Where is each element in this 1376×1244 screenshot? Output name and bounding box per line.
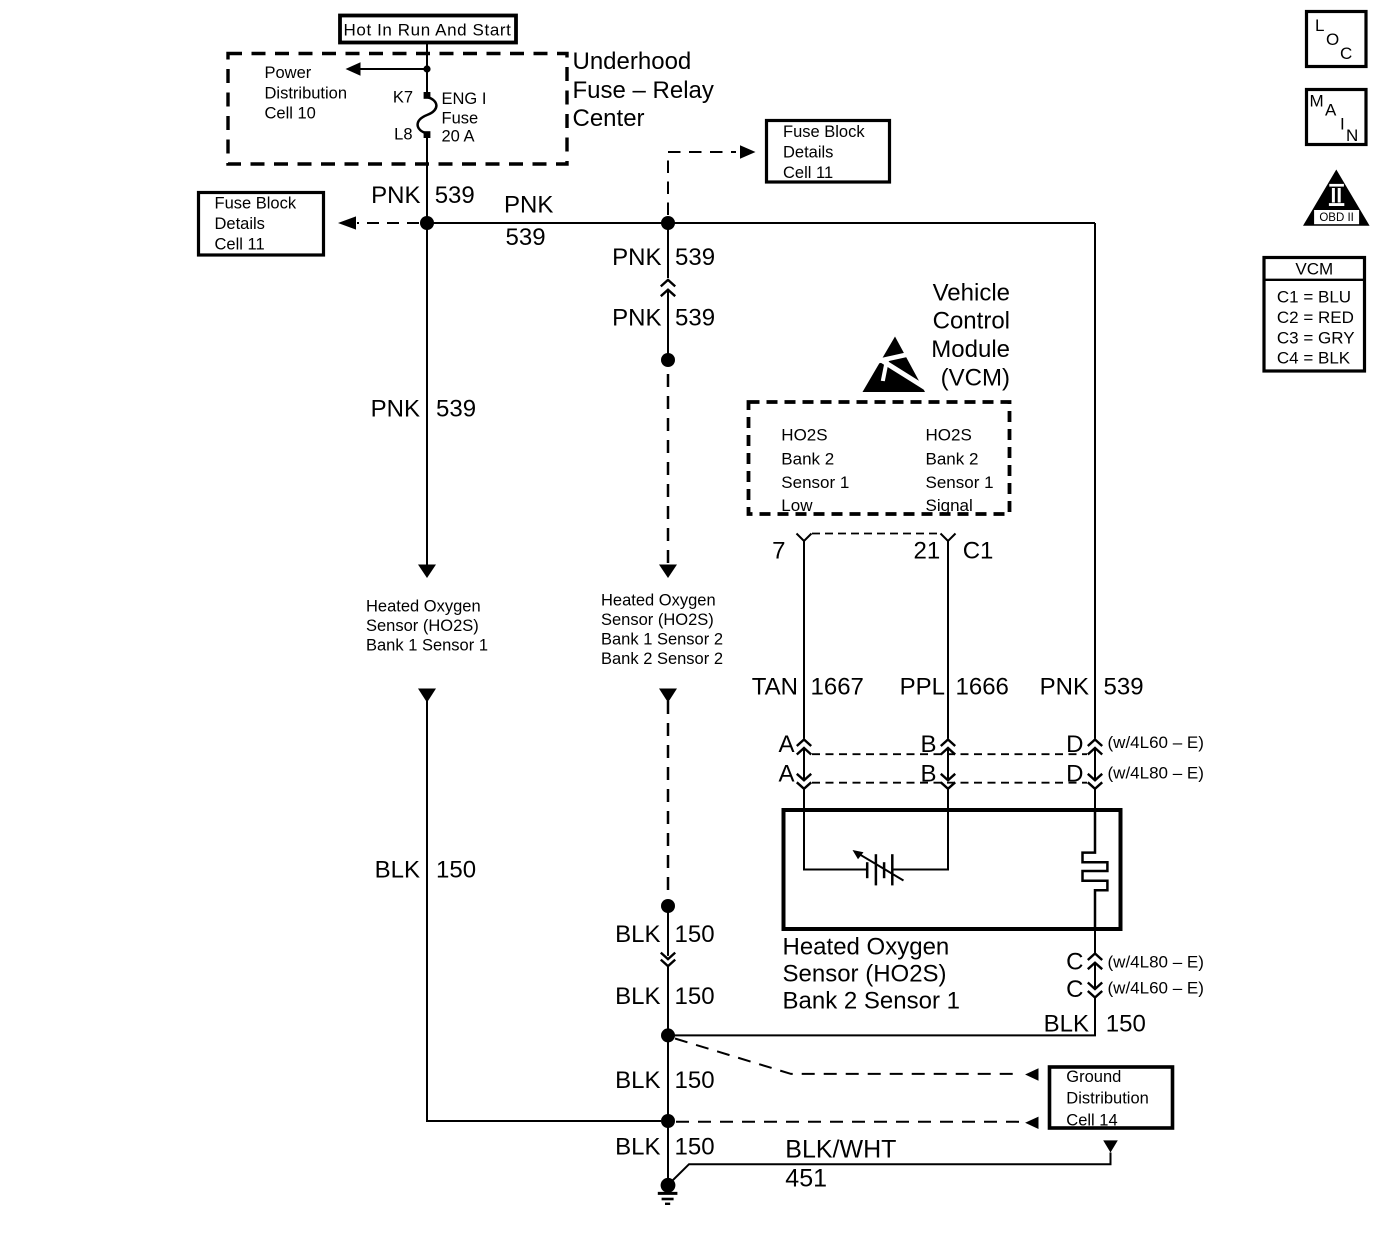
svg-text:Heated Oxygen: Heated Oxygen bbox=[783, 934, 950, 961]
svg-text:539: 539 bbox=[436, 396, 476, 423]
dashed wire: BLK 150 middle down bbox=[667, 701, 670, 899]
arrowhead: down to Heated Oxygen Sensor (middle) bbox=[659, 565, 677, 579]
Underhood Fuse-Relay Center dashed box bbox=[228, 54, 567, 165]
svg-text:BLK: BLK bbox=[615, 983, 660, 1010]
svg-text:PNK: PNK bbox=[371, 182, 420, 209]
junction: middle wire dot at dashed restart bbox=[661, 899, 675, 913]
svg-text:A: A bbox=[1325, 101, 1337, 120]
svg-text:Sensor (HO2S): Sensor (HO2S) bbox=[366, 617, 479, 635]
wire: connector to splice dot bbox=[667, 290, 669, 360]
fuse ENG I 20A: S-curve element bbox=[418, 97, 437, 134]
svg-text:Center: Center bbox=[573, 105, 645, 132]
ground symbol bars bbox=[658, 1193, 678, 1203]
svg-text:C2 = RED: C2 = RED bbox=[1277, 308, 1354, 327]
svg-text:HO2S: HO2S bbox=[926, 426, 972, 445]
inline connector row 2 (w/4L80-E) wire B bbox=[941, 774, 955, 789]
svg-text:539: 539 bbox=[675, 304, 715, 331]
wire: connector to splice bbox=[667, 966, 669, 1035]
box: Ground Distribution Cell 14 bbox=[1050, 1067, 1173, 1129]
label: PNK 539 (left column) bbox=[371, 396, 476, 423]
svg-text:150: 150 bbox=[675, 1134, 715, 1161]
VCM dashed box bbox=[749, 402, 1010, 514]
svg-text:Sensor (HO2S): Sensor (HO2S) bbox=[783, 961, 947, 988]
text: pin numbers 7, 21, C1 bbox=[772, 538, 993, 565]
wire: splice down to ground bbox=[667, 1121, 669, 1185]
wires from row2 connectors into HO2S box bbox=[803, 789, 805, 810]
svg-text:BLK: BLK bbox=[375, 857, 420, 884]
label: PPL 1666 bbox=[900, 673, 1009, 700]
svg-text:PNK: PNK bbox=[371, 396, 420, 423]
svg-text:O: O bbox=[1326, 30, 1339, 49]
svg-text:539: 539 bbox=[1104, 673, 1144, 700]
heater element symbol bbox=[1083, 810, 1108, 929]
arrowhead: down to Heated Oxygen Sensor (left) bbox=[418, 565, 436, 579]
label: PNK 539 (above inline connector) bbox=[612, 244, 715, 271]
inline connector row 1 (w/4L60-E) wire D bbox=[1088, 740, 1102, 755]
svg-text:150: 150 bbox=[436, 857, 476, 884]
box: Fuse Block Details Cell 11 (left) bbox=[199, 193, 324, 256]
pin 7: connector Y symbol bbox=[797, 534, 812, 542]
pin 21: connector Y symbol bbox=[941, 534, 956, 542]
arrowhead: into Fuse Block Details left bbox=[338, 216, 356, 229]
svg-text:Bank 2 Sensor 1: Bank 2 Sensor 1 bbox=[783, 988, 960, 1015]
svg-text:Ground: Ground bbox=[1066, 1068, 1121, 1086]
label: PNK 539 (upper left wire) bbox=[371, 182, 475, 209]
wire: from Hot In Run And Start down into fuse bbox=[426, 42, 428, 95]
svg-text:Fuse Block: Fuse Block bbox=[783, 123, 865, 141]
wire PNK 539 right side corner down bbox=[1094, 223, 1096, 739]
ESD sensitive symbol bbox=[863, 337, 931, 393]
svg-text:BLK: BLK bbox=[1044, 1011, 1089, 1038]
label: BLK 150 (third) bbox=[615, 1067, 714, 1094]
inline connector row 1 (w/4L60-E) wire A bbox=[797, 740, 811, 755]
inline connector on middle BLK wire bbox=[661, 953, 675, 967]
svg-text:BLK: BLK bbox=[615, 1067, 660, 1094]
junction: splice node left bbox=[420, 216, 434, 230]
svg-text:C: C bbox=[1066, 948, 1083, 975]
text: fuse labels K7 L8 ENG I Fuse 20 A bbox=[393, 89, 487, 146]
inline connector on middle wire (chevron pair) bbox=[661, 280, 675, 296]
wire: HO2S ground lead below box bbox=[1094, 929, 1096, 953]
svg-text:C: C bbox=[1066, 976, 1083, 1003]
box: Heated Oxygen Sensor HO2S Bank 2 Sensor 1 bbox=[784, 810, 1121, 929]
text: connector C labels bbox=[1066, 948, 1204, 1003]
svg-text:1667: 1667 bbox=[811, 673, 864, 700]
svg-text:BLK: BLK bbox=[615, 1134, 660, 1161]
wire PPL 1666 from pin 21 bbox=[947, 541, 949, 739]
svg-text:Details: Details bbox=[783, 144, 833, 162]
text: Vehicle Control Module (VCM) bbox=[931, 279, 1010, 391]
svg-text:Details: Details bbox=[215, 215, 265, 233]
VCM connector color legend table bbox=[1264, 258, 1365, 372]
sensor element: lead wires inside box bbox=[804, 810, 867, 870]
inline connector row 2 (w/4L80-E) wire D bbox=[1088, 774, 1102, 789]
svg-text:Low: Low bbox=[781, 496, 813, 515]
svg-text:B: B bbox=[920, 731, 936, 758]
svg-text:K7: K7 bbox=[393, 89, 413, 107]
svg-text:N: N bbox=[1346, 126, 1358, 145]
arrowhead: into Power Distribution Cell 10 bbox=[346, 62, 361, 76]
wire PNK 539: fuse output down to splice bbox=[426, 138, 428, 223]
svg-text:VCM: VCM bbox=[1295, 259, 1333, 278]
label: TAN 1667 bbox=[752, 673, 864, 700]
svg-text:Fuse: Fuse bbox=[442, 109, 479, 127]
dashed wire: diagonal to Ground Distribution row 1 bbox=[675, 1039, 1021, 1074]
svg-text:A: A bbox=[778, 761, 794, 788]
svg-text:150: 150 bbox=[1106, 1011, 1146, 1038]
arrowhead: Ground Distribution row 1 bbox=[1025, 1068, 1038, 1080]
svg-text:M: M bbox=[1310, 92, 1324, 111]
dashed wire to Fuse Block Details (left) bbox=[357, 222, 419, 224]
inline connector C row (w/4L80-E) bbox=[1088, 954, 1102, 970]
svg-text:Heated Oxygen: Heated Oxygen bbox=[366, 598, 481, 616]
svg-text:7: 7 bbox=[772, 538, 785, 565]
label: PNK 539 (below inline connector) bbox=[612, 304, 715, 331]
connector shaft C rows bbox=[1094, 963, 1096, 989]
svg-text:Sensor (HO2S): Sensor (HO2S) bbox=[601, 611, 714, 629]
svg-text:BLK: BLK bbox=[615, 921, 660, 948]
svg-text:Module: Module bbox=[931, 336, 1010, 363]
text: connector pin letters row 2 bbox=[778, 761, 1203, 788]
svg-text:(w/4L80 – E): (w/4L80 – E) bbox=[1108, 953, 1204, 972]
main horizontal wire PNK 539 across top bbox=[427, 222, 1095, 224]
svg-text:L: L bbox=[1315, 16, 1324, 35]
svg-text:Sensor 1: Sensor 1 bbox=[926, 473, 994, 492]
wire: middle segment to inline connector bbox=[667, 906, 669, 956]
junction: splice node on middle wire bbox=[661, 353, 675, 367]
svg-text:Heated Oxygen: Heated Oxygen bbox=[601, 592, 716, 610]
svg-text:BLK/WHT: BLK/WHT bbox=[785, 1136, 896, 1164]
svg-text:(w/4L80 – E): (w/4L80 – E) bbox=[1108, 763, 1204, 782]
svg-text:451: 451 bbox=[785, 1164, 827, 1192]
dashed connector face row 2 bbox=[812, 782, 1087, 784]
svg-text:L8: L8 bbox=[394, 125, 412, 143]
label: BLK 150 (right column) bbox=[1044, 1011, 1146, 1038]
svg-text:Cell 11: Cell 11 bbox=[215, 235, 265, 253]
node: splice at top of fuse bbox=[423, 65, 430, 72]
sensor element: variable arrow bbox=[853, 850, 904, 881]
svg-text:539: 539 bbox=[675, 244, 715, 271]
inline connector row 1 (w/4L60-E) wire B bbox=[941, 740, 955, 755]
svg-text:PNK: PNK bbox=[612, 304, 661, 331]
svg-text:TAN: TAN bbox=[752, 673, 798, 700]
inline connector C row (w/4L60-E) bbox=[1088, 983, 1102, 998]
svg-text:Cell 11: Cell 11 bbox=[783, 164, 833, 182]
svg-text:C1: C1 bbox=[963, 538, 994, 565]
svg-text:(w/4L60 – E): (w/4L60 – E) bbox=[1108, 979, 1204, 998]
wire: middle PNK 539 segment down to connector bbox=[667, 223, 669, 278]
svg-text:C4 = BLK: C4 = BLK bbox=[1277, 349, 1351, 368]
fuse ENG I 20A: terminal L8 bbox=[424, 131, 431, 138]
arrowhead: from Ground Distribution (down triangle) bbox=[1103, 1140, 1118, 1152]
text: Underhood Fuse - Relay Center bbox=[573, 48, 714, 132]
svg-text:I: I bbox=[1340, 115, 1345, 134]
svg-text:PNK: PNK bbox=[1040, 673, 1089, 700]
arrowhead: from HO2S sensors (wire restart middle) bbox=[659, 689, 677, 703]
junction: splice node middle bbox=[661, 216, 675, 230]
label: BLK 150 (fourth) bbox=[615, 1134, 714, 1161]
svg-text:Fuse – Relay: Fuse – Relay bbox=[573, 77, 714, 104]
svg-text:(w/4L60 – E): (w/4L60 – E) bbox=[1108, 733, 1204, 752]
OBD II triangle symbol bbox=[1303, 170, 1370, 226]
junction: splice with right branch bbox=[661, 1028, 675, 1042]
svg-text:Underhood: Underhood bbox=[573, 48, 692, 75]
wire: left column PNK 539 down bbox=[426, 223, 428, 565]
text: HO2S Bank 2 Sensor 1 Signal bbox=[926, 426, 994, 515]
wire: BLK/WHT 451 from ground node to Ground Distribution bbox=[670, 1153, 1111, 1184]
LOC legend box bbox=[1307, 12, 1367, 67]
svg-text:Distribution: Distribution bbox=[265, 84, 348, 102]
label: BLK 150 (below middle connector) bbox=[615, 983, 714, 1010]
svg-text:C3 = GRY: C3 = GRY bbox=[1277, 328, 1355, 347]
svg-text:Hot In Run And Start: Hot In Run And Start bbox=[344, 20, 512, 39]
svg-text:Bank 2 Sensor 2: Bank 2 Sensor 2 bbox=[601, 650, 723, 668]
wire: splice down to next splice bbox=[667, 1035, 669, 1121]
dashed branch up to Fuse Block Details (right) bbox=[668, 152, 736, 215]
svg-text:Bank 1 Sensor 2: Bank 1 Sensor 2 bbox=[601, 631, 723, 649]
arrowhead: Ground Distribution row 2 bbox=[1025, 1117, 1038, 1129]
svg-text:20 A: 20 A bbox=[442, 127, 475, 145]
svg-text:Control: Control bbox=[933, 308, 1010, 335]
svg-text:Vehicle: Vehicle bbox=[933, 279, 1010, 306]
text: Heated Oxygen Sensor (HO2S) Bank 1 Sensor 2 Bank 2 Sensor 2 bbox=[601, 592, 723, 669]
svg-text:150: 150 bbox=[675, 921, 715, 948]
svg-text:PPL: PPL bbox=[900, 673, 945, 700]
svg-text:Cell 14: Cell 14 bbox=[1066, 1111, 1117, 1129]
svg-text:Cell 10: Cell 10 bbox=[265, 105, 316, 123]
svg-text:Bank 2: Bank 2 bbox=[781, 450, 834, 469]
svg-text:Power: Power bbox=[265, 64, 312, 82]
svg-text:C1 = BLU: C1 = BLU bbox=[1277, 287, 1351, 306]
svg-text:OBD II: OBD II bbox=[1319, 212, 1354, 224]
connector C1 dashed face line bbox=[812, 533, 940, 535]
wire: branch to Power Distribution bbox=[359, 68, 427, 70]
box: Fuse Block Details Cell 11 (right) bbox=[767, 121, 890, 183]
text: Heated Oxygen Sensor (HO2S) Bank 1 Sensor 1 bbox=[366, 598, 488, 655]
ground node dot bbox=[661, 1178, 676, 1193]
svg-text:PNK: PNK bbox=[504, 191, 553, 218]
sensor element: plates bbox=[867, 854, 892, 885]
text: HO2S Bank 2 Sensor 1 Low bbox=[781, 426, 849, 515]
text: connector pin letters row 1 bbox=[778, 731, 1203, 758]
junction: splice with left branch bbox=[661, 1114, 675, 1128]
label: BLK/WHT 451 bbox=[785, 1136, 896, 1193]
svg-text:Fuse Block: Fuse Block bbox=[215, 194, 297, 212]
svg-text:A: A bbox=[778, 731, 794, 758]
svg-text:Bank 2: Bank 2 bbox=[926, 450, 979, 469]
svg-text:PNK: PNK bbox=[612, 244, 661, 271]
MAIN legend box bbox=[1307, 90, 1367, 146]
dashed wire down to HO2S bank1 sensor2 bbox=[667, 374, 670, 565]
svg-text:539: 539 bbox=[506, 224, 546, 251]
dashed connector face row 1 bbox=[812, 753, 1087, 755]
svg-text:Signal: Signal bbox=[926, 496, 973, 515]
label: BLK 150 (left column) bbox=[375, 857, 476, 884]
text: Heated Oxygen Sensor (HO2S) Bank 2 Sensor 1 bbox=[783, 934, 960, 1015]
label: PNK 539 (right column) bbox=[1040, 673, 1144, 700]
dashed wire: to Ground Distribution row 2 bbox=[676, 1121, 1021, 1123]
wire: BLK 150 left column down and over bbox=[427, 701, 661, 1121]
svg-text:HO2S: HO2S bbox=[781, 426, 827, 445]
svg-text:539: 539 bbox=[435, 182, 475, 209]
svg-text:Distribution: Distribution bbox=[1066, 1090, 1149, 1108]
wire: BLK 150 from connector down and left to splice bbox=[668, 998, 1095, 1036]
inline connector row 2 (w/4L80-E) wire A bbox=[797, 774, 811, 789]
text: Power Distribution Cell 10 bbox=[265, 64, 348, 123]
label: PNK / 539 (two-line, on main wire) bbox=[504, 191, 553, 251]
svg-text:Bank 1 Sensor 1: Bank 1 Sensor 1 bbox=[366, 637, 488, 655]
svg-text:(VCM): (VCM) bbox=[941, 364, 1010, 391]
arrowhead: into Fuse Block Details right bbox=[740, 145, 756, 158]
label box: Hot In Run And Start bbox=[340, 16, 516, 43]
svg-text:B: B bbox=[920, 761, 936, 788]
svg-text:150: 150 bbox=[675, 1067, 715, 1094]
svg-text:150: 150 bbox=[675, 983, 715, 1010]
fuse ENG I 20A: terminal K7 bbox=[424, 92, 431, 99]
svg-text:ENG I: ENG I bbox=[442, 90, 487, 108]
wire TAN 1667 from pin 7 bbox=[803, 541, 805, 739]
connector shafts between row1 and row2 bbox=[803, 748, 805, 780]
svg-text:21: 21 bbox=[913, 538, 940, 565]
svg-text:D: D bbox=[1066, 731, 1083, 758]
label: BLK 150 (above middle connector) bbox=[615, 921, 714, 948]
svg-text:Sensor 1: Sensor 1 bbox=[781, 473, 849, 492]
arrowhead: from HO2S bank1 sensor1 (wire restart left) bbox=[418, 689, 436, 703]
svg-text:C: C bbox=[1340, 44, 1352, 63]
svg-text:D: D bbox=[1066, 761, 1083, 788]
svg-text:1666: 1666 bbox=[956, 673, 1009, 700]
